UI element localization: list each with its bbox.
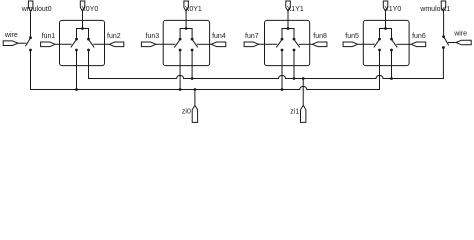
svg-text:wire: wire: [453, 31, 467, 38]
junction B2-right on upper rail: [191, 77, 194, 80]
wire B3-left down: [281, 50, 283, 90]
switch B4-right: [390, 38, 393, 41]
svg-text:X0Y1: X0Y1: [185, 6, 202, 13]
junction B2-left on lower rail: [179, 88, 182, 91]
svg-text:X0Y0: X0Y0: [81, 6, 98, 13]
wire wmulout1 to switch: [443, 11, 445, 36]
junction B1-left on lower rail: [75, 88, 78, 91]
port X0Y0: [80, 1, 85, 11]
node fork B4: [384, 27, 387, 30]
wire B2-right down: [191, 50, 193, 79]
wire B1-left down: [76, 50, 78, 90]
wire X0Y1 feed: [185, 11, 187, 28]
junction B3-left on lower rail: [281, 88, 284, 91]
wire fun5 to B4: [358, 43, 375, 45]
svg-text:zi0: zi0: [182, 109, 191, 116]
block 2 outline: [163, 20, 209, 65]
node fork B1: [81, 27, 84, 30]
switch B4-left: [378, 38, 381, 41]
net tag fun2: [109, 42, 124, 47]
junction zi0 on lower rail: [194, 88, 197, 91]
switch SW-left (wire to wmulout0): [29, 36, 32, 39]
wire B4-right down: [391, 50, 393, 79]
port X0Y1: [184, 1, 189, 11]
net tag fun8: [312, 42, 327, 47]
junction B3-right on upper rail: [293, 77, 296, 80]
wire zi0: [194, 90, 196, 106]
node fork B3: [287, 27, 290, 30]
net tag fun3: [141, 42, 156, 47]
svg-text:wire: wire: [4, 32, 18, 39]
svg-text:zi1: zi1: [290, 109, 299, 116]
node fork B2: [185, 27, 188, 30]
svg-text:fun3: fun3: [146, 33, 160, 40]
wire wmulout0 to switch: [30, 11, 32, 36]
switch B2-right: [191, 38, 194, 41]
wire X1Y1 feed: [287, 11, 289, 28]
svg-text:fun4: fun4: [212, 33, 226, 40]
wire tag to switch blade: [18, 42, 27, 44]
switch B3-left: [281, 38, 284, 41]
svg-text:X1Y1: X1Y1: [287, 6, 304, 13]
port wmulout0: [28, 1, 33, 11]
svg-text:fun6: fun6: [412, 33, 426, 40]
port X1Y0: [383, 1, 388, 11]
wire zi1: [302, 79, 304, 106]
junction zi1 on upper rail: [302, 77, 305, 80]
wire fun2 to B1: [93, 43, 109, 45]
switch B2-left: [179, 38, 182, 41]
net tag fun7: [244, 42, 259, 47]
block 3 outline: [265, 20, 310, 65]
junction B4-right on upper rail: [390, 77, 393, 80]
wire lower rail: [31, 50, 380, 90]
switch SW-right (wire to wmulout1): [442, 35, 445, 38]
block 1 outline: [60, 20, 105, 65]
port zi0: [192, 105, 197, 122]
port zi1: [301, 105, 306, 122]
svg-text:fun7: fun7: [245, 33, 259, 40]
wire fun6 to B4: [396, 43, 411, 45]
switch B1-right: [87, 38, 90, 41]
svg-text:wmulout0: wmulout0: [21, 6, 52, 13]
switch B1-left: [75, 38, 78, 41]
wire X1Y0 feed: [385, 11, 387, 28]
net tag fun1: [41, 42, 56, 47]
wire X0Y0 feed: [82, 11, 84, 28]
switch B3-right: [293, 38, 296, 41]
wire fun4 to B2: [197, 43, 211, 45]
svg-text:wmulout1: wmulout1: [419, 6, 450, 13]
wire fun1 to B1: [55, 43, 71, 45]
svg-text:fun5: fun5: [345, 33, 359, 40]
wire B2-left down: [179, 50, 181, 90]
wire tag to switch blade (right): [448, 42, 456, 44]
block 4 outline: [363, 20, 409, 65]
net tag fun6: [411, 42, 426, 47]
net tag fun4: [211, 42, 226, 47]
port X1Y1: [286, 1, 291, 11]
wire fun8 to B3: [299, 43, 313, 45]
net tag wire (left): [3, 41, 18, 46]
net tag fun5: [343, 42, 358, 47]
net tag wire (right): [456, 40, 471, 45]
svg-text:fun2: fun2: [107, 33, 121, 40]
wire B3-right down: [293, 50, 295, 79]
wire fun3 to B2: [156, 43, 175, 45]
svg-text:fun8: fun8: [313, 33, 327, 40]
wire upper rail: [89, 48, 444, 79]
svg-text:fun1: fun1: [42, 33, 56, 40]
wire fun7 to B3: [259, 43, 278, 45]
svg-text:X1Y0: X1Y0: [384, 6, 401, 13]
port wmulout1: [441, 1, 446, 11]
